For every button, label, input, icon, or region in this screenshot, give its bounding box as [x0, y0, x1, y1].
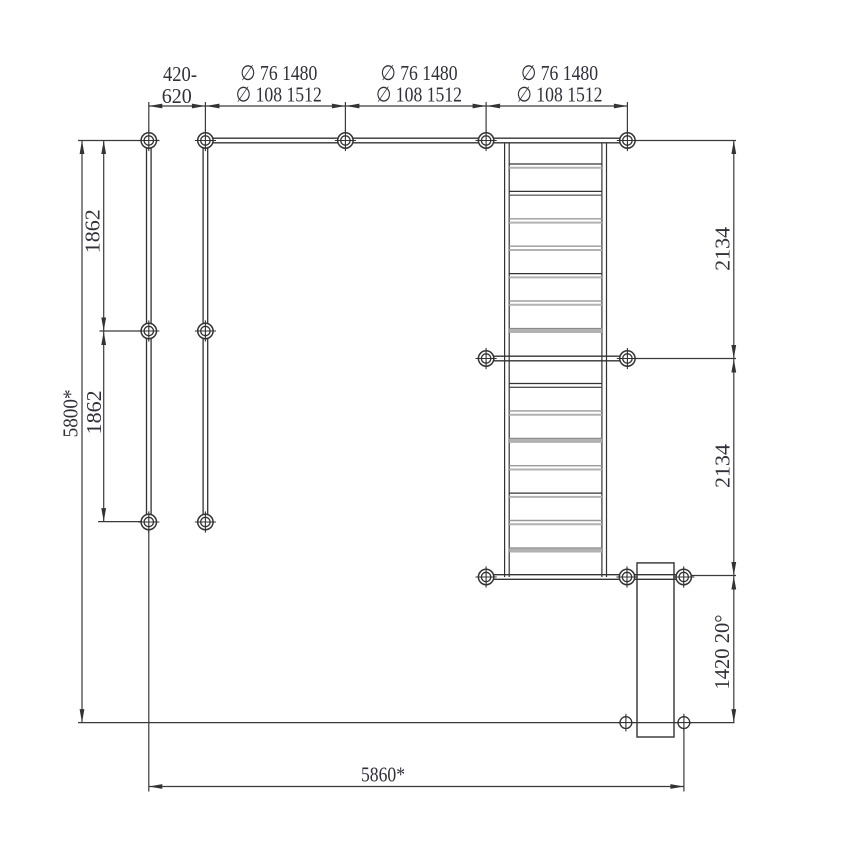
wire middle horizontal bar [486, 356, 627, 361]
wire mid-right extension line [627, 358, 736, 360]
wire ladder rung 12 [509, 493, 602, 497]
svg-text:2134: 2134 [711, 226, 735, 271]
svg-text:420-: 420- [163, 62, 197, 86]
wire extension down from post C1 [148, 522, 150, 792]
wire extension above post A5 [626, 102, 628, 132]
wire ladder rung 4 [509, 246, 602, 250]
wire extension line to post C1 [98, 521, 149, 523]
svg-text:5800*: 5800* [59, 389, 83, 437]
wire extension above post A3 [344, 102, 346, 132]
svg-text:∅ 76 1480: ∅ 76 1480 [521, 61, 598, 85]
wire ladder rung 11 [509, 466, 602, 470]
post A2 [195, 130, 216, 151]
wire ladder rung 14 [509, 548, 602, 553]
arrow bay2 left [206, 104, 220, 109]
wire right dimension line 2134/1420 [733, 141, 735, 723]
post E1 [476, 566, 497, 587]
wire extension down from post F2 [683, 723, 685, 792]
svg-text:1420 20°: 1420 20° [710, 615, 734, 690]
post E3 [673, 566, 694, 587]
wire bottom-right extension line [684, 575, 736, 577]
wire extension above post A4 [485, 102, 487, 132]
post D1 [476, 348, 497, 369]
arrow 1862a bottom [101, 318, 106, 332]
arrow bay4 left [487, 104, 501, 109]
wire ladder right side rail [602, 143, 607, 577]
post A5 top-right [617, 130, 638, 151]
arrow 1862b top [101, 332, 106, 346]
post A3 [335, 130, 356, 151]
wire top-left extension line y=140 [78, 140, 159, 142]
post C2 [195, 511, 216, 532]
wire ladder rung 5 [509, 274, 602, 278]
wire ladder rung 2 [509, 191, 602, 195]
wire extension above post A2 [204, 102, 206, 132]
arrow 2134b bottom [731, 562, 736, 576]
wire top dimension line [149, 105, 628, 107]
wire vertical rail left post column 1 [147, 141, 152, 523]
svg-text:∅ 76 1480: ∅ 76 1480 [381, 61, 458, 85]
svg-text:620: 620 [162, 84, 192, 108]
svg-text:∅ 108 1512: ∅ 108 1512 [236, 83, 322, 107]
post E2 [616, 566, 637, 587]
svg-text:∅ 108 1512: ∅ 108 1512 [517, 83, 603, 107]
wire ladder rung 6 [509, 301, 602, 305]
arrow 5860 left [149, 784, 163, 789]
arrow 1862b bottom [101, 508, 106, 521]
post A4 [476, 130, 497, 151]
arrow bay2 right [332, 104, 346, 109]
wire extension line to post B1 [100, 330, 149, 332]
wire ladder rung 13 [509, 521, 602, 525]
post C1 [138, 511, 159, 532]
post B1 [138, 320, 159, 341]
wire ladder rung 10 [509, 438, 602, 443]
arrow 1420 bottom [731, 709, 736, 723]
wire ladder rung 8 [509, 384, 602, 388]
arrow 1862a top [101, 141, 106, 155]
wire extension above post A1 [148, 102, 150, 132]
wire ladder rung 3 [509, 219, 602, 223]
arrow 1420 top [731, 576, 736, 590]
post D2 [617, 348, 638, 369]
arrow 420-620 right [192, 104, 206, 109]
wire long bottom extension line [78, 722, 735, 724]
wire ladder left side rail [505, 143, 510, 577]
svg-text:5860*: 5860* [361, 763, 405, 787]
svg-text:∅ 108 1512: ∅ 108 1512 [376, 83, 462, 107]
svg-text:2134: 2134 [711, 443, 735, 488]
wire 1862 dimension line [103, 141, 105, 523]
arrow 5800 bottom [80, 709, 85, 723]
svg-text:∅ 76 1480: ∅ 76 1480 [240, 61, 317, 85]
arrow 2134a bottom [731, 345, 736, 359]
post F2 small [675, 714, 693, 732]
slide chute rectangle [637, 563, 674, 737]
arrow 5860 right [670, 784, 684, 789]
wire ladder rung 9 [509, 411, 602, 415]
arrow bay3 left [346, 104, 360, 109]
wire bottom horizontal bar [486, 575, 684, 580]
wire top-right extension line [627, 140, 736, 142]
wire ladder rung 7 [509, 328, 602, 333]
arrow 2134a top [731, 141, 736, 155]
wire 5800 dimension line [81, 141, 83, 723]
arrow bay3 right [473, 104, 487, 109]
svg-text:1862: 1862 [82, 390, 106, 434]
wire top horizontal rail [205, 138, 627, 143]
post F1 small [617, 714, 635, 732]
wire vertical rail left post column 2 [203, 141, 208, 523]
wire ladder rung 1 [509, 164, 602, 168]
wire 5860 dimension line [149, 786, 684, 788]
arrow 5800 top [80, 141, 85, 155]
arrow bay4 right [614, 104, 628, 109]
svg-text:1862: 1862 [81, 209, 105, 253]
post B2 [195, 320, 216, 341]
arrow 420-620 left [149, 104, 163, 109]
arrow 2134b top [731, 359, 736, 373]
post A1 top-left [138, 130, 159, 151]
